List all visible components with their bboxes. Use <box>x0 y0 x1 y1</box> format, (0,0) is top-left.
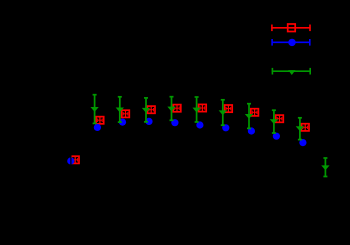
legend green sample <box>272 68 311 75</box>
data point red square series1 #1 <box>71 156 79 163</box>
data point blue circle series2 #5 <box>171 119 178 126</box>
data point blue circle series2 #1 <box>67 157 74 164</box>
data point blue circle series2 #6 <box>196 121 203 128</box>
data point green triangle errorbar series3 #9 <box>296 118 303 140</box>
data point green triangle errorbar series3 #1 <box>91 95 98 124</box>
data point red square series1 #2 <box>96 117 104 124</box>
data point green triangle errorbar series3 #5 <box>193 97 200 122</box>
data point red square series1 #8 <box>251 109 259 116</box>
data point green triangle errorbar series3 #2 <box>116 97 123 122</box>
data point red square series1 #7 <box>225 105 233 112</box>
data point red square series1 #9 <box>276 115 284 122</box>
data point blue circle series2 #9 <box>273 133 280 140</box>
data point blue circle series2 #10 <box>299 139 306 146</box>
data point green triangle errorbar series3 #7 <box>246 104 253 129</box>
data point blue circle series2 #4 <box>145 118 152 125</box>
data point green triangle errorbar series3 #8 <box>270 110 277 133</box>
data point blue circle series2 #8 <box>248 127 255 134</box>
legend red sample <box>271 24 310 32</box>
data point green triangle errorbar series3 #6 <box>219 100 226 125</box>
data point blue circle series2 #7 <box>222 124 229 131</box>
data point red square series1 #4 <box>147 106 155 113</box>
data point green triangle errorbar series3 #4 <box>168 97 175 121</box>
data point blue circle series2 #3 <box>119 119 126 126</box>
data point red square series1 #10 <box>301 124 309 131</box>
data point green triangle errorbar series3 #10 <box>322 158 329 177</box>
data point red square series1 #6 <box>199 104 207 111</box>
black error bar over first blue point <box>70 148 72 174</box>
data point blue circle series2 #2 <box>94 124 101 131</box>
data point green triangle errorbar series3 #3 <box>143 98 150 122</box>
data point red square series1 #3 <box>122 110 130 117</box>
legend blue sample <box>272 39 311 46</box>
data point red square series1 #5 <box>173 105 181 112</box>
